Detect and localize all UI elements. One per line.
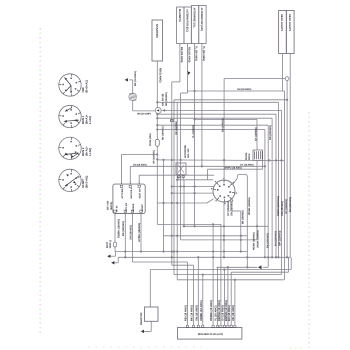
wire h125.2	[157, 124, 268, 126]
wire v284 with bottom bus	[177, 91, 284, 280]
wire pin2 riser	[193, 265, 195, 325]
labels right nest a	[277, 196, 292, 216]
connector circle headlight junction	[285, 77, 289, 81]
label on afterfire vertical	[192, 125, 195, 138]
label left of main vertical	[153, 150, 156, 164]
key switch junction circle	[155, 107, 165, 113]
label module b4	[138, 223, 141, 242]
wire pin4 riser	[202, 273, 204, 325]
fold line bottom (scan artifact)	[88, 347, 301, 349]
ground arrow 2	[111, 257, 118, 264]
wire v264	[264, 130, 266, 258]
label diode left	[245, 152, 251, 160]
svg-text:BU (18 AWG): BU (18 AWG)	[228, 305, 231, 321]
svg-text:BR (18AWG): BR (18AWG)	[241, 210, 244, 224]
svg-text:GY (18AWG): GY (18AWG)	[285, 199, 288, 214]
ignition switch position START	[59, 169, 89, 191]
svg-text:OR/BK (18AWG): OR/BK (18AWG)	[256, 230, 259, 248]
wire coil down	[133, 100, 156, 111]
wire alt dc down	[181, 44, 188, 240]
label right of connector block	[184, 145, 190, 158]
svg-text:WH/BK (18 AWG): WH/BK (18 AWG)	[210, 300, 213, 321]
svg-text:RD (16AWG): RD (16AWG)	[165, 92, 168, 106]
starter box	[152, 20, 163, 61]
label v240 wire	[241, 210, 244, 224]
alternator (a/c) box	[199, 6, 206, 44]
bus y224.4	[157, 223, 221, 225]
wire ignition top	[223, 79, 225, 180]
wire pin7 riser	[220, 224, 222, 325]
label ignition top wire	[222, 118, 225, 132]
wire top bus to headlight junction	[224, 78, 287, 80]
fold line left (scan artifact)	[40, 28, 41, 333]
label fuse 20 amp	[149, 133, 152, 146]
label at coil bottom wire	[137, 113, 151, 116]
diode pack box	[253, 150, 263, 160]
svg-text:GY (18 AWG): GY (18 AWG)	[240, 163, 254, 166]
svg-text:HEAD LIGHTS: HEAD LIGHTS	[288, 14, 291, 31]
svg-text:RESISTOR: RESISTOR	[140, 312, 143, 325]
wire v163.5	[163, 159, 165, 251]
svg-text:OR (18AWG): OR (18AWG)	[281, 201, 284, 216]
svg-text:STARTER: STARTER	[155, 24, 159, 38]
ignition switch position OFF	[59, 74, 89, 96]
wire starter down	[156, 61, 158, 108]
wire pin3 riser	[197, 257, 199, 325]
svg-text:L+A2): L+A2)	[88, 116, 92, 124]
label battery ground	[106, 240, 112, 249]
svg-text:OR/BK (18 AWG): OR/BK (18 AWG)	[200, 300, 203, 321]
inline fuse 20 amp	[155, 139, 159, 146]
fold line right (scan artifact)	[309, 112, 310, 348]
svg-text:GY (18AWG): GY (18AWG)	[254, 127, 257, 141]
head light box 1	[279, 11, 287, 54]
svg-text:BK (18AWG): BK (18AWG)	[266, 233, 269, 248]
svg-text:OR (18AWG): OR (18AWG)	[129, 225, 132, 240]
svg-text:RD/BK (18AWG): RD/BK (18AWG)	[118, 219, 121, 238]
wire pin8 riser	[223, 270, 225, 326]
svg-text:YL (18 AWG): YL (18 AWG)	[202, 46, 205, 61]
svg-text:(B+S+A1): (B+S+A1)	[85, 80, 89, 92]
magneto box	[177, 7, 184, 44]
wire resistor ground	[141, 321, 151, 333]
label module b3	[129, 225, 132, 240]
label on v177	[175, 121, 178, 135]
wire ignition lowerright pad route	[231, 199, 241, 251]
label below ignition 2	[231, 201, 234, 216]
svg-text:WH/PU (18 AWG): WH/PU (18 AWG)	[224, 166, 242, 169]
wire pin5 riser	[212, 224, 214, 325]
svg-text:AFTERFIRE SOL.: AFTERFIRE SOL.	[193, 8, 196, 29]
label afterfire wire	[195, 46, 198, 61]
label diode top wire	[254, 127, 257, 141]
wire module b1	[114, 216, 116, 252]
label resistor	[140, 312, 143, 325]
wire h179.8	[177, 179, 213, 181]
bus y265.2 from magneto	[172, 264, 194, 266]
svg-text:SOL 12V: SOL 12V	[187, 148, 190, 158]
wire h91 GN	[187, 90, 284, 92]
svg-text:SM (20 AMP): SM (20 AMP)	[137, 113, 151, 116]
ignition switch	[213, 180, 235, 202]
bus y239.9	[181, 239, 257, 241]
svg-text:YL (18AWG): YL (18AWG)	[192, 125, 195, 138]
module pin labels top	[121, 187, 142, 198]
svg-text:BRAKE: BRAKE	[132, 203, 135, 211]
label magneto wire	[180, 47, 183, 63]
label key switch	[162, 92, 168, 106]
wire module pin t3 up	[139, 175, 214, 184]
wire pin9 riser	[227, 267, 229, 325]
label v247 wire	[248, 197, 251, 215]
wire v278	[277, 102, 279, 257]
label module b2	[122, 221, 125, 236]
junction dot main at 154.5	[156, 153, 158, 155]
wire pin10 riser	[230, 272, 232, 325]
label module b1	[118, 219, 121, 238]
polarity arrow near afterfire wire	[187, 71, 190, 75]
wire resistor down	[149, 270, 151, 308]
svg-text:L+A2): L+A2)	[88, 148, 92, 156]
svg-text:RD (6 AWG): RD (6 AWG)	[158, 68, 161, 83]
junction dots on main vertical	[156, 101, 158, 131]
resistor box	[145, 307, 159, 321]
wire h102.3	[157, 101, 278, 103]
svg-text:BU (18AWG): BU (18AWG)	[275, 231, 278, 246]
wire headlight 2 down	[289, 54, 291, 258]
svg-text:AFT FIRE: AFT FIRE	[121, 188, 124, 198]
ignition switch position RUN 2	[59, 137, 92, 159]
wire diode bottom	[256, 160, 258, 240]
ignition switch position RUN 1	[59, 105, 92, 127]
wire headlight junction drop	[286, 81, 288, 259]
svg-text:START: START	[141, 204, 144, 212]
wire module pin t1 up	[121, 155, 157, 185]
wire h193.1	[172, 192, 213, 194]
wire main vertical	[156, 113, 158, 224]
wire module b3	[132, 216, 187, 262]
wire pin6 riser	[217, 267, 218, 325]
wire h159.3	[157, 159, 284, 162]
wire v184 down	[183, 180, 185, 227]
svg-text:RD (6 AWG): RD (6 AWG)	[222, 118, 225, 132]
label alt dc wire	[187, 47, 190, 63]
wire resistor bus	[150, 268, 291, 270]
labels plug wires	[184, 300, 235, 321]
alternator (dc) box	[184, 7, 191, 44]
molded connector plug	[178, 325, 242, 339]
bus y257.3	[118, 256, 290, 258]
svg-text:RD (18AWG): RD (18AWG)	[269, 125, 272, 140]
svg-text:RD/WH (18AWG): RD/WH (18AWG)	[277, 196, 280, 216]
wire pin11 riser	[234, 279, 236, 326]
label coil right	[134, 71, 137, 86]
svg-text:B+ IN: B+ IN	[116, 205, 119, 211]
bus y251.5	[115, 251, 247, 253]
svg-text:GN (18 AWG): GN (18 AWG)	[133, 163, 147, 166]
svg-text:RD (18 AWG): RD (18 AWG)	[184, 305, 187, 321]
svg-text:ALTERNATOR (DC): ALTERNATOR (DC)	[185, 9, 188, 32]
label WH PU	[224, 166, 242, 169]
wire v177	[176, 102, 178, 279]
svg-text:GY (18AWG): GY (18AWG)	[227, 201, 230, 216]
ground arrow left of coil	[125, 78, 133, 82]
svg-text:RD/BK (18AWG): RD/BK (18AWG)	[248, 197, 251, 215]
svg-text:(BACK): (BACK)	[110, 202, 113, 210]
coil element hatched	[129, 80, 137, 101]
wire v281 with bottom bus	[174, 110, 281, 274]
head light box 2	[286, 11, 294, 54]
svg-text:GND (-): GND (-)	[109, 240, 112, 249]
wire alt ac down	[201, 44, 203, 168]
inline fuse module b1	[114, 242, 117, 247]
labels left of diode drop	[253, 230, 260, 250]
svg-text:OR (18AWG): OR (18AWG)	[175, 121, 178, 135]
wire magneto down	[172, 44, 180, 266]
svg-text:SEAT SW: SEAT SW	[139, 188, 142, 199]
svg-text:RD (18AWG): RD (18AWG)	[162, 126, 165, 140]
svg-text:FUSE (20A): FUSE (20A)	[149, 133, 152, 146]
svg-text:BK (18 AWG): BK (18 AWG)	[191, 305, 194, 321]
connector block small	[176, 163, 186, 180]
svg-text:OR (18 AWG): OR (18 AWG)	[232, 305, 235, 321]
label module left	[107, 200, 113, 210]
ground arrow 1	[107, 252, 115, 258]
svg-text:GY/BK (18AWG): GY/BK (18AWG)	[138, 223, 141, 242]
wire ignition right elbow	[233, 175, 247, 268]
wire h119.4 diode feed	[193, 118, 257, 120]
svg-text:(B+S+A1): (B+S+A1)	[85, 176, 89, 188]
wire afterfire down	[194, 44, 196, 227]
svg-text:MOLDED PLUG (A/T): MOLDED PLUG (A/T)	[198, 333, 223, 336]
junction dots bus 251	[124, 250, 242, 252]
connector square on magneto wire	[171, 119, 173, 121]
wire v268	[267, 125, 269, 267]
label right v268	[269, 125, 272, 140]
wire v291 stub	[290, 257, 292, 269]
junction dot afterfire at 91	[193, 90, 195, 92]
wire headlight 1 down	[282, 54, 284, 92]
svg-text:RD/BK (18AWG): RD/BK (18AWG)	[253, 232, 256, 250]
ignition switch terminal letters	[211, 178, 237, 205]
junction dots bus 257	[124, 256, 279, 258]
wire h186.5	[172, 186, 214, 188]
wire h110.3	[161, 109, 281, 111]
label below ignition 1	[227, 201, 230, 216]
svg-text:HEAD LIGHTS: HEAD LIGHTS	[280, 14, 283, 31]
labels right nest b	[275, 230, 282, 246]
wire h129.5	[157, 129, 265, 131]
svg-text:BK (18AWG): BK (18AWG)	[289, 197, 292, 212]
svg-text:GN (18 AWG): GN (18 AWG)	[195, 305, 198, 321]
wire diode top	[256, 119, 258, 150]
wire module pin t2 up	[130, 166, 265, 184]
wire module b2	[124, 216, 126, 257]
label GN 18AWG top	[237, 88, 251, 91]
svg-text:WH (18AWG): WH (18AWG)	[279, 230, 282, 246]
labels right nest c	[266, 233, 269, 248]
wire pin1 riser	[186, 262, 188, 325]
wire v288 pin10 route	[231, 257, 288, 272]
svg-text:GN (18 AWG): GN (18 AWG)	[237, 88, 251, 91]
wire diode right leg	[262, 160, 264, 169]
svg-text:ALTERNATOR (A/C): ALTERNATOR (A/C)	[200, 8, 203, 32]
svg-text:BK (16 AWG): BK (16 AWG)	[134, 71, 137, 86]
interlock module box	[113, 182, 145, 216]
wire v276	[275, 114, 277, 257]
wire whpu	[208, 169, 263, 180]
junction dot main at 159.3	[156, 158, 158, 160]
bus y235.8	[164, 235, 248, 237]
svg-text:MAGNETO: MAGNETO	[178, 9, 181, 22]
wire v272	[271, 118, 273, 257]
label alt ac wire	[202, 46, 205, 61]
module pin labels bottom	[116, 202, 144, 212]
label GY on h166	[240, 163, 254, 166]
ground bus 267.3	[217, 265, 269, 269]
svg-text:BK (18AWG): BK (18AWG)	[122, 221, 125, 236]
wire ignition bottom	[223, 202, 225, 257]
wire h118.2	[157, 117, 272, 119]
label RD 6AWG starter wire	[158, 68, 161, 83]
label below key circle	[162, 126, 165, 140]
wire h203	[157, 199, 213, 204]
svg-text:OR (16AWG): OR (16AWG)	[153, 150, 156, 164]
wire h99.8	[174, 99, 287, 101]
junction dots left feeds	[171, 179, 196, 195]
label GN on h166	[133, 163, 147, 166]
wire module b4	[140, 216, 142, 252]
svg-text:PACK: PACK	[248, 153, 251, 160]
bus y226.3	[182, 225, 268, 227]
svg-text:MAG KILL: MAG KILL	[130, 187, 133, 198]
svg-text:PTO SW: PTO SW	[125, 202, 128, 212]
wire h114.2	[157, 113, 276, 115]
afterfire sol. box	[191, 6, 198, 44]
label plug	[198, 333, 223, 336]
wire v174	[173, 100, 175, 275]
